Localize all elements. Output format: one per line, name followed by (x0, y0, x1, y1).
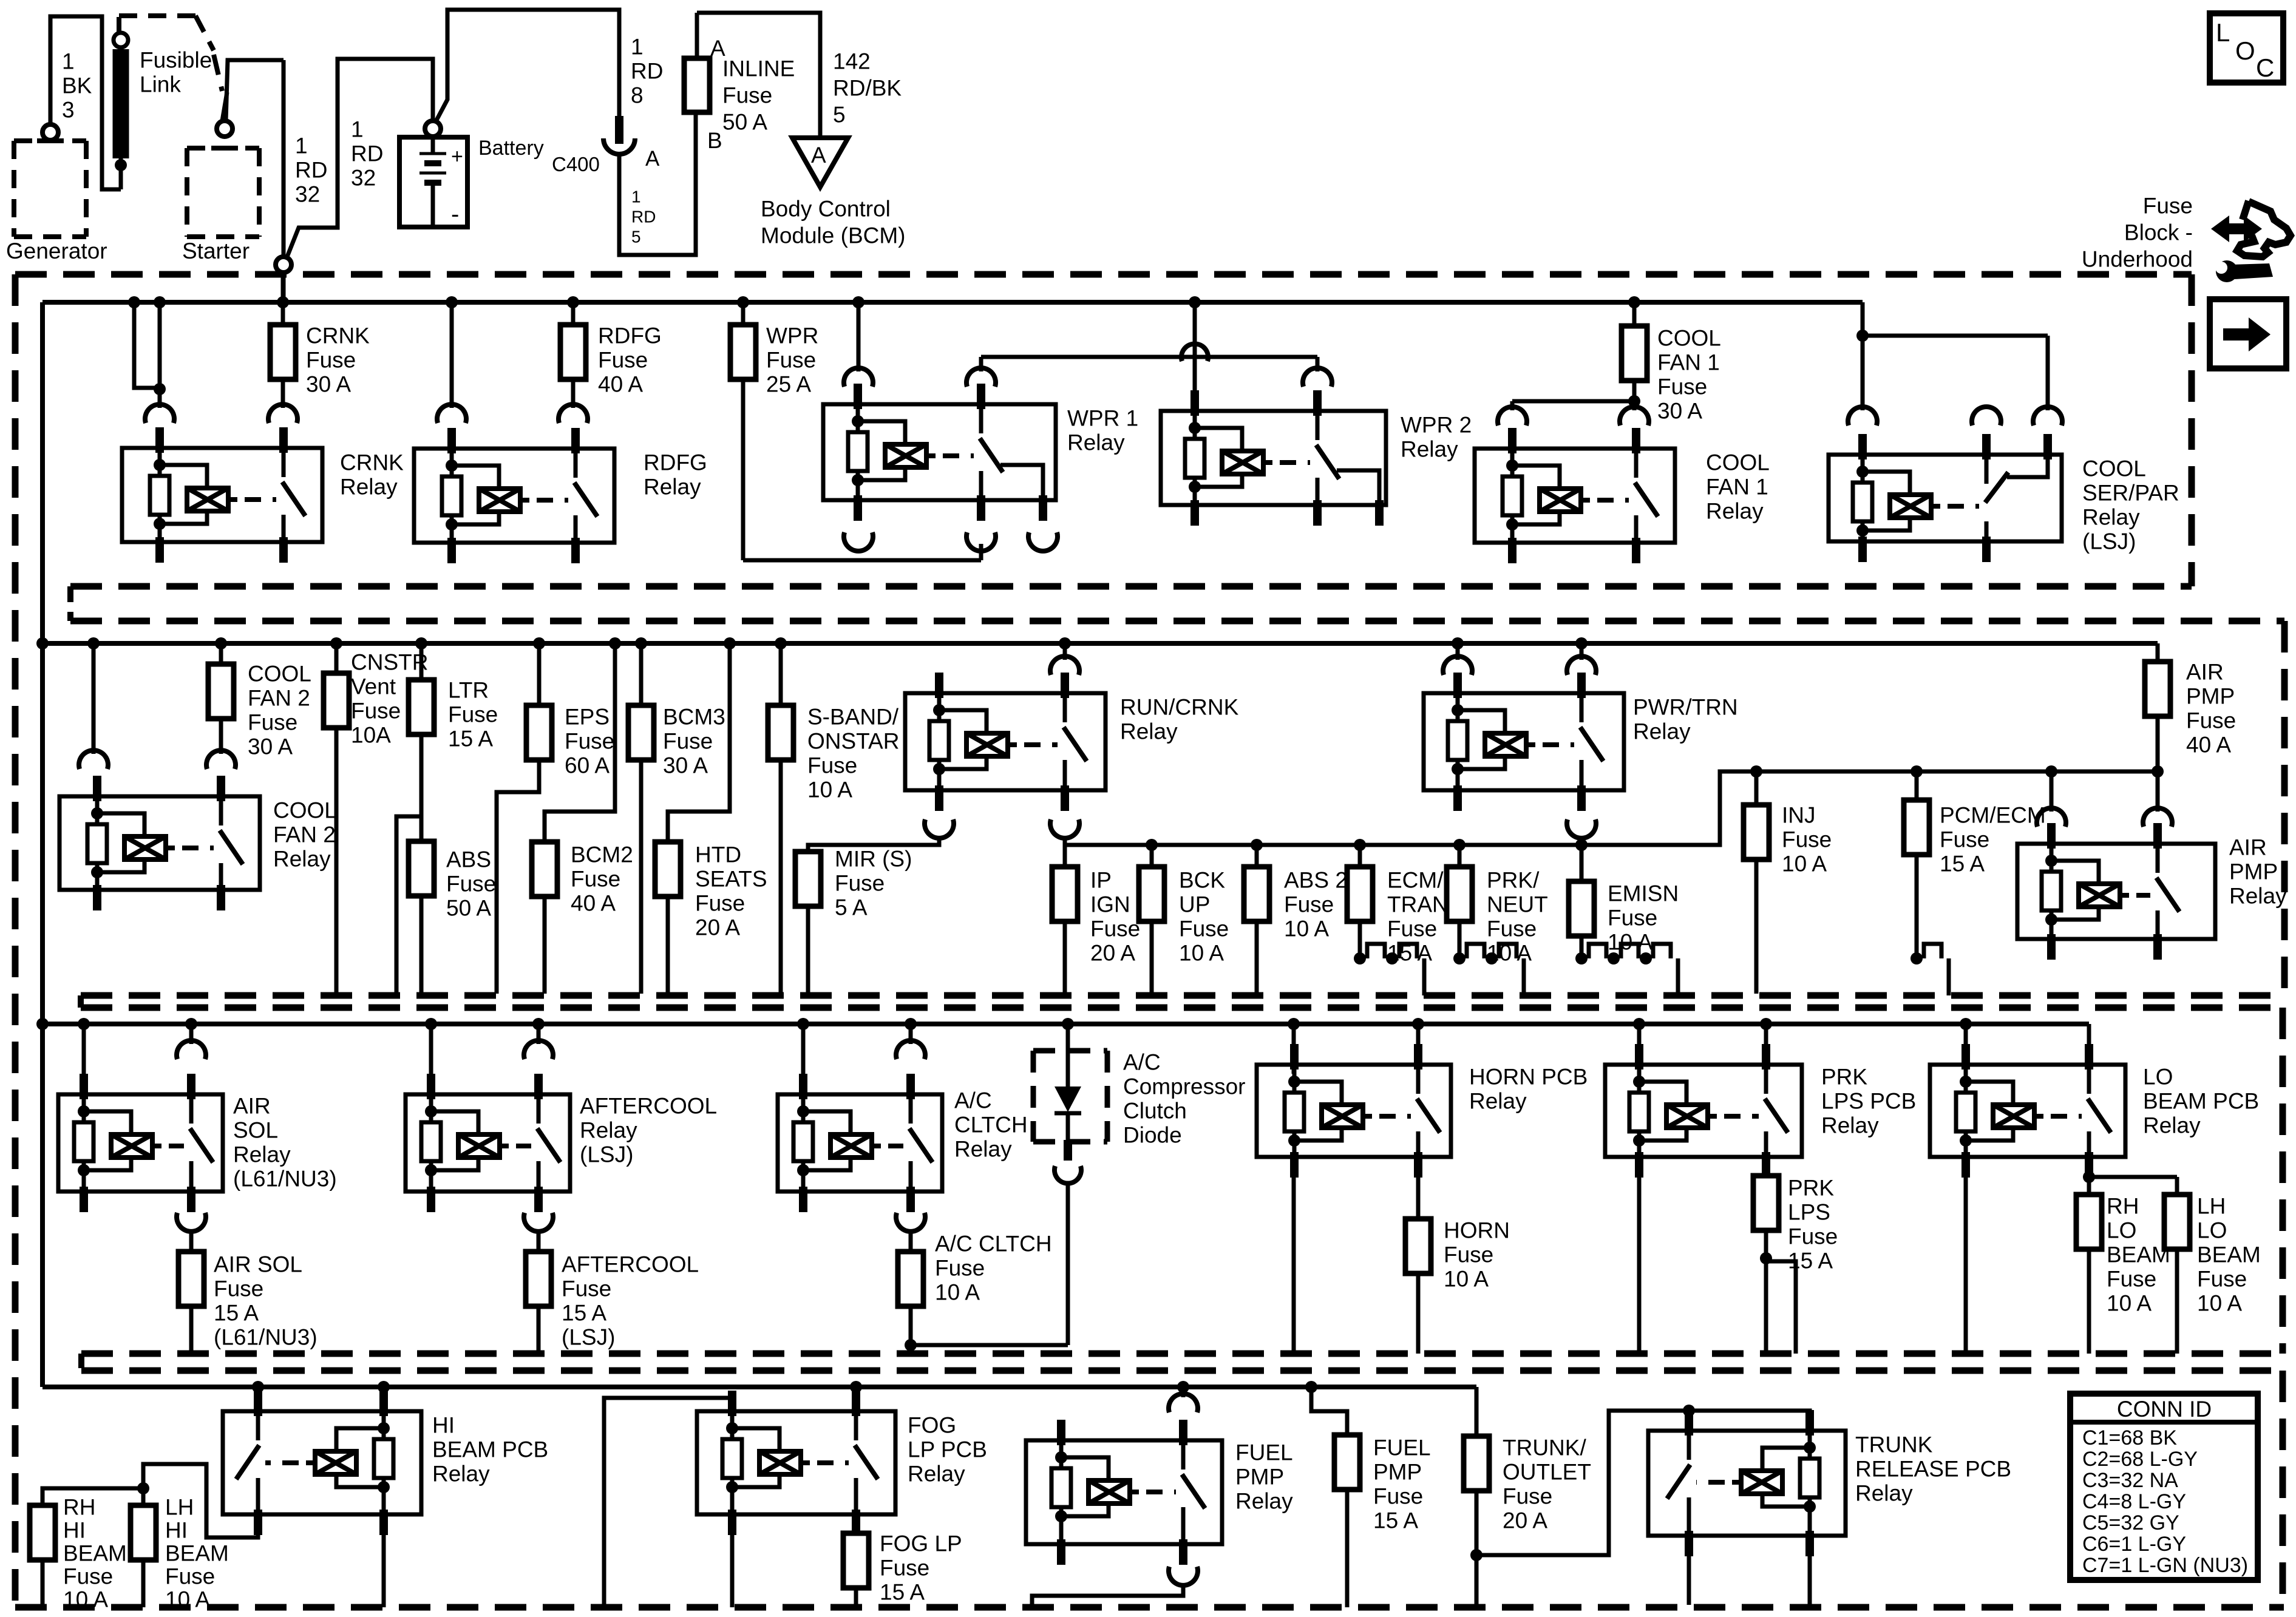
svg-text:20 A: 20 A (695, 915, 740, 940)
WPR1 relay coil feed (844, 302, 873, 387)
fusible link (113, 33, 212, 189)
svg-text:A/C: A/C (954, 1088, 992, 1113)
svg-text:Generator: Generator (6, 239, 107, 263)
svg-text:Relay: Relay (1235, 1489, 1293, 1514)
svg-text:PMP: PMP (1235, 1465, 1284, 1490)
relay RUN/CRNK (905, 643, 1239, 838)
svg-text:PWR/TRN: PWR/TRN (1633, 695, 1738, 720)
svg-text:A/C: A/C (1123, 1050, 1161, 1075)
svg-text:PCM/ECM: PCM/ECM (1940, 803, 2046, 828)
svg-text:RD/BK: RD/BK (833, 76, 902, 101)
row divider dashed 3-4 (81, 1354, 2283, 1607)
svg-text:Fusible: Fusible (140, 48, 212, 73)
svg-text:Relay: Relay (2082, 505, 2140, 530)
svg-text:Fuse: Fuse (562, 1276, 611, 1301)
fuse TRUNK/OUTLET 20 A (1464, 1387, 1591, 1607)
svg-text:Fuse: Fuse (2107, 1267, 2156, 1292)
svg-text:RH: RH (2107, 1194, 2139, 1219)
fuse PRK LPS 15 A (1753, 1176, 1838, 1354)
svg-text:Module (BCM): Module (BCM) (761, 223, 906, 248)
svg-text:5: 5 (833, 103, 846, 127)
svg-text:10 A: 10 A (1284, 917, 1329, 941)
svg-text:C3=32 NA: C3=32 NA (2082, 1469, 2178, 1492)
fuse FOG LP 15 A (843, 1519, 962, 1607)
relay TRUNK RELEASE PCB (mirrored) (1648, 1410, 2011, 1556)
svg-text:LTR: LTR (448, 678, 489, 703)
svg-text:40 A: 40 A (598, 372, 643, 397)
HORN PCB relay coil ground wire (1292, 1178, 1296, 1354)
svg-text:+: + (451, 145, 463, 168)
svg-text:Clutch: Clutch (1123, 1099, 1187, 1124)
svg-text:LO: LO (2143, 1065, 2173, 1090)
svg-text:LP PCB: LP PCB (908, 1437, 987, 1462)
svg-text:Relay: Relay (1855, 1481, 1913, 1506)
fuse PRK/NEUT 10 A (1447, 845, 1548, 995)
svg-text:LPS PCB: LPS PCB (1821, 1089, 1916, 1114)
svg-text:32: 32 (351, 166, 376, 191)
svg-text:Fuse: Fuse (1788, 1224, 1838, 1249)
svg-text:Fuse: Fuse (448, 702, 498, 727)
svg-text:Fuse: Fuse (63, 1564, 113, 1589)
row2 switched feed wire (1065, 837, 1720, 867)
svg-text:Relay: Relay (1401, 437, 1458, 462)
svg-text:Fuse: Fuse (935, 1256, 985, 1281)
svg-text:C1=68 BK: C1=68 BK (2082, 1426, 2177, 1449)
svg-text:RELEASE PCB: RELEASE PCB (1855, 1457, 2011, 1482)
svg-text:Fuse: Fuse (1444, 1242, 1493, 1267)
starter terminal (217, 92, 233, 137)
wire HI BEAM output to fuses (42, 1464, 258, 1537)
svg-text:20 A: 20 A (1090, 941, 1135, 966)
svg-text:IP: IP (1090, 868, 1112, 893)
svg-text:FAN 2: FAN 2 (273, 822, 336, 847)
fuse ECM/TRANS 15 A (1347, 845, 1463, 995)
svg-text:Fuse: Fuse (835, 871, 885, 896)
svg-text:Fuse: Fuse (2186, 708, 2236, 733)
svg-text:BCM2: BCM2 (571, 842, 633, 867)
svg-text:(LSJ): (LSJ) (562, 1325, 615, 1350)
svg-text:HTD: HTD (695, 842, 741, 867)
fuse COOL FAN 2 30 A (206, 643, 311, 769)
svg-text:HI: HI (165, 1518, 188, 1543)
connector C400 (552, 116, 660, 175)
svg-text:10 A: 10 A (63, 1587, 108, 1612)
relay RDFG (414, 428, 707, 563)
svg-text:LO: LO (2107, 1218, 2136, 1243)
svg-text:40 A: 40 A (571, 891, 616, 916)
svg-text:1: 1 (351, 117, 364, 142)
TRUNK RELEASE relay ground wires (1689, 1531, 1810, 1605)
CONN ID table (2070, 1394, 2258, 1580)
svg-text:BK: BK (62, 73, 92, 98)
svg-text:COOL: COOL (1706, 450, 1770, 475)
svg-text:Fuse: Fuse (1503, 1484, 1552, 1509)
LO BEAM fuse labels (2107, 1194, 2261, 1316)
svg-text:8: 8 (631, 83, 644, 108)
svg-text:MIR (S): MIR (S) (835, 847, 912, 872)
wire WPR fuse to WPR1 relay output (743, 544, 981, 560)
svg-text:COOL: COOL (273, 798, 337, 823)
svg-text:WPR 1: WPR 1 (1067, 406, 1138, 431)
fusible link dashed enclosure (119, 16, 222, 91)
svg-text:EMISN: EMISN (1608, 881, 1679, 906)
svg-text:Fuse: Fuse (766, 348, 816, 373)
svg-text:A: A (811, 143, 826, 168)
svg-text:WPR: WPR (766, 324, 818, 348)
fuse ABS 2 10 A (1244, 845, 1348, 994)
generator (dashed box) (6, 141, 107, 263)
fuse INJ 10 A (1744, 771, 1832, 994)
svg-text:FAN 1: FAN 1 (1657, 350, 1720, 375)
svg-text:Fuse: Fuse (1090, 917, 1140, 941)
svg-text:RUN/CRNK: RUN/CRNK (1120, 695, 1239, 720)
svg-text:Diode: Diode (1123, 1123, 1182, 1148)
svg-text:C7=1 L-GN (NU3): C7=1 L-GN (NU3) (2082, 1554, 2248, 1577)
svg-text:AIR: AIR (2186, 660, 2224, 685)
fuse CRNK 30 A (268, 302, 370, 423)
svg-text:TRUNK/: TRUNK/ (1503, 1436, 1586, 1460)
svg-text:BEAM: BEAM (2197, 1242, 2261, 1267)
starter (dashed box) (182, 148, 259, 263)
row3 bus (36, 1018, 2089, 1030)
fuse RH HI BEAM 10 A (30, 1495, 127, 1612)
svg-text:INJ: INJ (1782, 803, 1816, 828)
relay LO BEAM PCB (1930, 1024, 2259, 1178)
svg-text:PRK/: PRK/ (1487, 868, 1540, 893)
svg-text:RD: RD (295, 158, 327, 183)
wire LO BEAM output to fuses (2083, 1171, 2177, 1195)
RDFG relay coil feed (437, 302, 466, 423)
LO BEAM PCB relay coil ground wire (1964, 1178, 1968, 1354)
svg-text:(L61/NU3): (L61/NU3) (214, 1325, 318, 1350)
relay AIR PMP (2017, 771, 2287, 960)
fuse AIR SOL 15 A (178, 1231, 318, 1354)
svg-text:A: A (645, 147, 660, 171)
wire A/C CLTCH fuse to diode (911, 1343, 1068, 1347)
svg-text:15 A: 15 A (1788, 1249, 1833, 1273)
wire battery to C400 (436, 10, 663, 120)
svg-text:(LSJ): (LSJ) (580, 1142, 633, 1167)
wire 142 RD/BK 5 to BCM (697, 13, 902, 138)
wire 1 RD 5 C400 to inline fuse (619, 114, 696, 255)
svg-text:1: 1 (631, 35, 644, 59)
svg-text:Fuse: Fuse (248, 710, 297, 735)
svg-text:AIR: AIR (233, 1094, 271, 1119)
COOL FAN 2 relay coil feed (79, 643, 108, 769)
relay WPR 2 (1161, 390, 1472, 526)
svg-text:HORN PCB: HORN PCB (1469, 1065, 1588, 1090)
svg-text:Fuse: Fuse (571, 867, 620, 892)
svg-text:Block -: Block - (2124, 220, 2193, 245)
relay AIR SOL (L61/NU3) (58, 1024, 337, 1232)
svg-text:TRUNK: TRUNK (1855, 1432, 1933, 1457)
svg-text:10 A: 10 A (935, 1280, 980, 1305)
wire bus to WPR relays link (966, 302, 1332, 411)
svg-text:ABS: ABS (446, 847, 491, 872)
relay COOL FAN 1 (1475, 428, 1770, 563)
svg-text:50 A: 50 A (722, 110, 767, 135)
fuse IP IGN 20 A (1052, 867, 1140, 994)
svg-text:Link: Link (140, 72, 181, 97)
svg-text:EPS: EPS (565, 705, 610, 730)
svg-text:25 A: 25 A (766, 372, 811, 397)
relay COOL SER/PAR (LSJ) (1829, 434, 2179, 562)
fuse CNSTR Vent 10A (324, 643, 428, 994)
svg-text:Relay: Relay (954, 1137, 1012, 1162)
svg-text:C: C (2256, 53, 2274, 82)
svg-text:C5=32 GY: C5=32 GY (2082, 1511, 2179, 1534)
battery (399, 121, 544, 228)
svg-text:Fuse: Fuse (722, 83, 772, 108)
svg-text:A/C CLTCH: A/C CLTCH (935, 1232, 1052, 1256)
fuse HORN 10 A (1405, 1178, 1510, 1354)
svg-text:PRK: PRK (1821, 1065, 1867, 1090)
svg-text:30 A: 30 A (306, 372, 351, 397)
relay FOG LP PCB (697, 1387, 987, 1535)
svg-text:Fuse: Fuse (351, 699, 401, 724)
svg-text:C400: C400 (552, 153, 600, 175)
fuse LH LO BEAM 10 A (2164, 1195, 2190, 1354)
svg-text:Relay: Relay (908, 1462, 965, 1486)
location code box LOC (2210, 13, 2283, 83)
svg-text:Fuse: Fuse (1487, 917, 1537, 941)
svg-text:RH: RH (63, 1495, 95, 1520)
svg-text:SEATS: SEATS (695, 867, 767, 892)
svg-text:40 A: 40 A (2186, 733, 2231, 758)
svg-text:Fuse: Fuse (695, 891, 745, 916)
svg-text:1: 1 (631, 187, 641, 206)
row divider dashed 1-2 (70, 586, 2284, 995)
svg-text:PMP: PMP (2229, 859, 2278, 884)
fuse BCM2 40 A (532, 842, 633, 994)
wire HTD SEATS feed (668, 643, 730, 842)
svg-text:WPR 2: WPR 2 (1401, 413, 1472, 438)
svg-text:RDFG: RDFG (644, 450, 707, 475)
svg-text:FUEL: FUEL (1373, 1436, 1431, 1460)
svg-text:Fuse: Fuse (880, 1556, 929, 1581)
svg-text:Vent: Vent (351, 674, 396, 699)
relay CRNK (122, 427, 404, 563)
svg-text:Relay: Relay (2143, 1113, 2201, 1138)
svg-text:Fuse: Fuse (306, 348, 356, 373)
relay A/C CLTCH (778, 1024, 1028, 1232)
fuse FUEL PMP 15 A (1311, 1387, 1431, 1607)
svg-text:COOL: COOL (1657, 326, 1721, 351)
svg-text:LO: LO (2197, 1218, 2227, 1243)
svg-text:PMP: PMP (2186, 684, 2235, 709)
svg-text:ABS 2: ABS 2 (1284, 868, 1348, 893)
svg-text:LH: LH (165, 1495, 194, 1520)
svg-text:RDFG: RDFG (598, 324, 662, 348)
svg-text:32: 32 (295, 182, 320, 207)
fuse EMISN 10 A (1569, 837, 1679, 995)
svg-text:Fuse: Fuse (2197, 1267, 2247, 1292)
svg-text:Relay: Relay (644, 475, 701, 500)
HI BEAM PCB coil ground wire (382, 1510, 386, 1607)
svg-text:FUEL: FUEL (1235, 1440, 1293, 1465)
relay PRK LPS PCB (1605, 1024, 1916, 1178)
svg-text:HI: HI (432, 1413, 455, 1438)
svg-text:BEAM: BEAM (2107, 1242, 2170, 1267)
svg-text:142: 142 (833, 49, 871, 74)
relay HI BEAM PCB (mirrored) (223, 1387, 548, 1535)
svg-text:AIR: AIR (2229, 835, 2267, 860)
svg-text:SOL: SOL (233, 1118, 278, 1143)
svg-text:Battery: Battery (478, 137, 544, 160)
row1 feed wire (281, 273, 285, 302)
hand pointing icon with wrench (2211, 201, 2291, 282)
relay AFTERCOOL (LSJ) (406, 1024, 717, 1232)
svg-text:15 A: 15 A (880, 1580, 925, 1605)
svg-text:(LSJ): (LSJ) (2082, 529, 2136, 554)
svg-text:BEAM: BEAM (63, 1541, 127, 1566)
svg-text:15 A: 15 A (448, 727, 493, 751)
svg-text:Relay: Relay (340, 475, 398, 500)
svg-text:CRNK: CRNK (306, 324, 370, 348)
svg-text:HI: HI (63, 1518, 86, 1543)
svg-text:Relay: Relay (2229, 884, 2287, 909)
fuse MIR (S) 5 A (795, 847, 912, 994)
svg-text:FOG LP: FOG LP (880, 1531, 962, 1556)
wire BCM2 feed (545, 643, 615, 842)
relay PWR/TRN (1424, 643, 1738, 838)
svg-text:CRNK: CRNK (340, 450, 404, 475)
svg-text:10 A: 10 A (807, 778, 852, 802)
svg-text:Fuse: Fuse (598, 348, 648, 373)
row divider dashed 2-3 (81, 995, 2284, 1354)
svg-text:FAN 1: FAN 1 (1706, 475, 1768, 500)
svg-text:PMP: PMP (1373, 1460, 1422, 1485)
svg-text:BEAM PCB: BEAM PCB (432, 1437, 548, 1462)
fuse block underhood label (2082, 194, 2193, 272)
svg-text:Fuse: Fuse (1387, 917, 1437, 941)
svg-text:50 A: 50 A (446, 896, 491, 921)
fuse AFTERCOOL 15 A (526, 1231, 699, 1354)
svg-text:Fuse: Fuse (663, 729, 713, 754)
fuse WPR 25 A (730, 302, 818, 560)
svg-text:Relay: Relay (1067, 430, 1125, 455)
svg-text:COOL: COOL (248, 662, 311, 686)
svg-text:C2=68 L-GY: C2=68 L-GY (2082, 1448, 2198, 1471)
svg-text:Fuse: Fuse (446, 872, 496, 897)
svg-text:AIR SOL: AIR SOL (214, 1252, 302, 1277)
svg-text:Fuse: Fuse (1940, 827, 1989, 852)
svg-text:UP: UP (1179, 892, 1210, 917)
svg-text:1: 1 (295, 134, 308, 158)
svg-text:L: L (2216, 18, 2230, 47)
FOG LP PCB coil feed wire (604, 1398, 732, 1607)
svg-text:5: 5 (631, 227, 641, 246)
junction C100 splice (276, 257, 291, 302)
svg-text:INLINE: INLINE (722, 56, 795, 81)
svg-text:Relay: Relay (233, 1142, 291, 1167)
svg-text:15 A: 15 A (1940, 852, 1985, 876)
svg-text:Underhood: Underhood (2082, 247, 2193, 272)
svg-text:Fuse: Fuse (1179, 917, 1229, 941)
COOL SER/PAR relay feed wires (1848, 302, 2062, 425)
svg-text:15 A: 15 A (1373, 1508, 1418, 1533)
arrow box (continuation) (2210, 299, 2286, 368)
svg-text:O: O (2235, 36, 2255, 65)
svg-text:20 A: 20 A (1503, 1508, 1547, 1533)
svg-text:30 A: 30 A (663, 753, 708, 778)
svg-text:ECM/: ECM/ (1387, 868, 1444, 893)
svg-text:IGN: IGN (1090, 892, 1130, 917)
wire 1 BK 3 generator to fusible link (50, 16, 121, 189)
wire 1 RD 32 battery feed (286, 59, 433, 260)
fuse RH LO BEAM 10 A (2076, 1195, 2102, 1354)
svg-text:Compressor: Compressor (1123, 1074, 1246, 1099)
svg-text:10A: 10A (351, 723, 391, 748)
svg-text:Starter: Starter (182, 239, 250, 263)
svg-text:Fuse: Fuse (165, 1564, 215, 1589)
svg-text:Relay: Relay (1120, 719, 1178, 744)
svg-text:Body Control: Body Control (761, 197, 891, 222)
svg-text:AFTERCOOL: AFTERCOOL (580, 1094, 717, 1119)
svg-text:BCM3: BCM3 (663, 705, 725, 730)
generator terminal (42, 124, 58, 140)
svg-text:LPS: LPS (1788, 1200, 1830, 1225)
svg-text:Fuse: Fuse (1373, 1484, 1423, 1509)
svg-text:RD: RD (351, 141, 383, 166)
PRK LPS PCB relay coil ground wire (1637, 1178, 1642, 1354)
svg-text:Fuse: Fuse (565, 729, 614, 754)
svg-text:Fuse: Fuse (2143, 194, 2193, 219)
fuse RDFG 40 A (559, 302, 662, 423)
svg-text:5 A: 5 A (835, 895, 868, 920)
svg-text:Relay: Relay (1706, 499, 1764, 524)
svg-text:Relay: Relay (1821, 1113, 1879, 1138)
fuse S-BAND/ONSTAR 10 A (768, 643, 899, 994)
svg-text:C4=8 L-GY: C4=8 L-GY (2082, 1490, 2186, 1513)
svg-text:30 A: 30 A (1657, 399, 1702, 424)
svg-text:BEAM PCB: BEAM PCB (2143, 1089, 2259, 1114)
relay WPR 1 (823, 384, 1138, 551)
relay FUEL PMP (1026, 1387, 1293, 1585)
fuse COOL FAN 1 30 A (1498, 302, 1721, 425)
svg-text:Relay: Relay (273, 847, 331, 872)
svg-text:10 A: 10 A (2107, 1291, 2152, 1316)
FUEL PMP relay output wire (1032, 1583, 1183, 1607)
fuse LTR 15 A (396, 643, 498, 994)
svg-text:10 A: 10 A (1444, 1267, 1489, 1292)
svg-text:Fuse: Fuse (1608, 906, 1657, 931)
svg-text:3: 3 (62, 98, 75, 123)
svg-text:Fuse: Fuse (807, 753, 857, 778)
fuse ABS 50 A (409, 841, 496, 994)
svg-text:30 A: 30 A (248, 734, 293, 759)
svg-text:Relay: Relay (580, 1118, 637, 1143)
svg-text:Relay: Relay (432, 1462, 490, 1486)
svg-text:COOL: COOL (2082, 456, 2146, 481)
svg-text:C6=1 L-GY: C6=1 L-GY (2082, 1533, 2186, 1556)
BCM connector triangle (761, 138, 906, 248)
fuse AIR PMP 40 A (2145, 643, 2236, 771)
fuse PCM/ECM 15 A (1904, 771, 2046, 995)
wire PWR/TRN output distribution (1581, 765, 2164, 845)
svg-text:Fuse: Fuse (1782, 827, 1832, 852)
fuse A/C CLTCH 10 A (898, 1231, 1052, 1354)
svg-text:NEUT: NEUT (1487, 892, 1548, 917)
svg-text:10 A: 10 A (1608, 930, 1652, 955)
relay COOL FAN 2 (59, 776, 337, 910)
row4 bus (42, 1381, 1476, 1393)
svg-text:10 A: 10 A (1487, 941, 1532, 966)
FOG LP PCB coil ground wire (730, 1510, 735, 1607)
wire RUN/CRNK coil to MIR fuse (808, 837, 939, 852)
fuse BCK UP 10 A (1139, 845, 1229, 994)
svg-text:BCK: BCK (1179, 868, 1225, 893)
